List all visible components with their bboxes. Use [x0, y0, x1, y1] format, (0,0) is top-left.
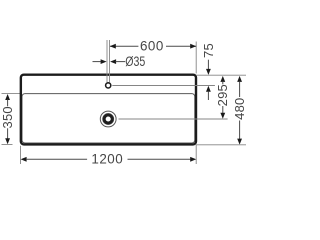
- dimension 350 top arrow: [5, 94, 10, 100]
- dimension 600 line right segment: [166, 45, 196, 47]
- dimension 75 upper line: [207, 60, 209, 69]
- svg-text:295: 295: [215, 84, 230, 106]
- dimension 480 lower line: [239, 121, 241, 140]
- dimension 600 line left segment: [110, 45, 138, 47]
- dimension 600 right arrow: [190, 44, 196, 49]
- wire: faucet hole right extension line: [109, 40, 111, 82]
- node: faucet hole circle: [106, 83, 111, 88]
- wire: faucet hole left extension line: [106, 40, 108, 82]
- svg-text:75: 75: [201, 43, 216, 58]
- dimension 1200 line left segment: [26, 158, 87, 160]
- wire: 1200 left extension line: [20, 146, 22, 164]
- dimension 1200 right arrow: [190, 157, 196, 162]
- dimension 350 down arrow: [5, 138, 10, 144]
- svg-text:350: 350: [0, 106, 15, 128]
- wire: top-right reference line (back edge level): [196, 74, 246, 76]
- dimension 75 down arrow: [206, 69, 211, 75]
- svg-text:480: 480: [232, 98, 246, 120]
- node: drain outer circle: [100, 111, 116, 127]
- dimension 600 left arrow: [110, 44, 116, 49]
- dimension Ø35 left arrow: [101, 59, 107, 64]
- node: drain thick inner ring: [104, 115, 112, 123]
- dimension Ø35 right tail: [116, 61, 126, 63]
- dimension 1200 left arrow: [21, 157, 27, 162]
- dimension 480 top arrow: [237, 76, 242, 82]
- svg-text:1200: 1200: [91, 152, 123, 167]
- wire: inner-edge extension line left (350 top ref): [2, 93, 23, 95]
- dimension 295 upper line: [222, 81, 224, 84]
- dimension 75 lower tail: [207, 91, 209, 100]
- dimension 480 upper line: [239, 81, 241, 97]
- dimension 295 top arrow: [220, 76, 225, 82]
- node: basin outer outline: [21, 75, 196, 145]
- dimension 295 down arrow: [220, 113, 225, 119]
- svg-text:Ø35: Ø35: [125, 54, 145, 69]
- svg-text:600: 600: [140, 39, 164, 54]
- dimension 480 down arrow: [237, 139, 242, 145]
- wire: 350 bottom reference line: [2, 144, 13, 146]
- dimension 75 up arrow: [206, 86, 211, 92]
- dimension Ø35 left tail: [93, 61, 102, 63]
- node: basin inner bowl outline: [22, 94, 195, 143]
- node: drain middle circle: [103, 114, 114, 125]
- dimension 350 lower line: [7, 128, 9, 139]
- wire: bottom-right reference line (front edge level): [196, 144, 246, 146]
- wire: faucet hole center line to right: [112, 85, 215, 87]
- dimension 350 upper line: [7, 100, 9, 107]
- wire: 1200 right extension line: [195, 145, 197, 164]
- dimension Ø35 right arrow: [110, 59, 116, 64]
- wire: right extension line for 600: [195, 42, 197, 74]
- wire: drain center line to right: [119, 118, 228, 120]
- dimension 1200 line right segment: [128, 158, 191, 160]
- dimension 295 lower line: [222, 106, 224, 113]
